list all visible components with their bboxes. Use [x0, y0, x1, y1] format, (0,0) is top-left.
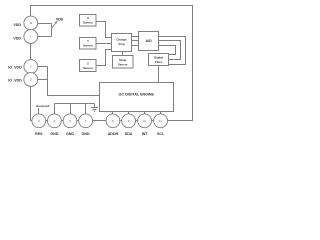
chip boundary: [31, 6, 193, 121]
wire Z sensor to charge amp: [96, 50, 112, 66]
wire temp sensor to charge amp: [122, 52, 124, 56]
svg-text:I2C DIGITAL ENGINE: I2C DIGITAL ENGINE: [118, 93, 154, 97]
pin RES 4: [32, 114, 46, 128]
pin SDA 9: [122, 114, 136, 128]
wire VDD join vertical: [51, 23, 53, 37]
wire Y sensor to charge amp: [96, 43, 112, 45]
pin IO_VDD 3: [24, 73, 38, 87]
pin IO_VDD 2: [24, 60, 38, 74]
pin SCL 12: [154, 114, 168, 128]
pin VDD 1: [24, 30, 38, 44]
feedback wire middle: [159, 41, 181, 60]
charge amp block: [112, 34, 132, 52]
pin GND 7: [79, 114, 93, 128]
wire IO_VDD pin 3: [37, 79, 47, 81]
feedback wire outer: [159, 37, 186, 65]
pin GND 6: [63, 114, 77, 128]
svg-text:Filter: Filter: [155, 60, 163, 64]
svg-text:SCL: SCL: [157, 132, 165, 136]
svg-text:Sensor: Sensor: [118, 62, 129, 66]
wire RES to Reserved: [38, 108, 40, 114]
ground: [91, 108, 98, 112]
svg-text:VDD: VDD: [13, 37, 21, 41]
VDD power arrow: [52, 23, 57, 29]
svg-text:Sensor: Sensor: [83, 21, 94, 25]
svg-text:ADDR: ADDR: [108, 132, 119, 136]
svg-text:Charge: Charge: [116, 37, 126, 41]
svg-text:GND: GND: [50, 132, 58, 136]
svg-text:SDA: SDA: [125, 132, 133, 136]
svg-text:Amp: Amp: [118, 42, 125, 46]
wire VDD pin 10 to join: [37, 23, 51, 25]
svg-text:IO_VDD: IO_VDD: [8, 79, 22, 83]
svg-text:RES: RES: [35, 132, 43, 136]
wire IO_VDD bus to I2C engine: [48, 67, 100, 96]
digital filter block: [149, 54, 169, 66]
wires charge amp to A/D: [132, 37, 139, 46]
pin INT 11: [138, 114, 152, 128]
svg-text:GND: GND: [82, 132, 90, 136]
svg-text:Reserved: Reserved: [36, 104, 49, 108]
wires I2C engine to bottom pins: [113, 112, 161, 115]
I2C digital engine block: [100, 83, 174, 112]
X sensor block: [80, 15, 97, 27]
Z sensor block: [80, 60, 97, 72]
pin GND 5: [48, 114, 62, 128]
svg-text:Sensor: Sensor: [83, 66, 94, 70]
svg-text:INT: INT: [142, 132, 149, 136]
svg-text:VDD: VDD: [56, 17, 64, 21]
A/D block: [139, 32, 159, 51]
wire VDD pin 1 to join: [37, 36, 51, 38]
svg-text:VDD: VDD: [13, 23, 21, 27]
wire digital filter to I2C engine: [158, 66, 160, 83]
wire IO_VDD pin 2: [37, 66, 47, 68]
temp sensor block: [113, 56, 134, 69]
svg-text:A/D: A/D: [145, 39, 152, 43]
feedback wire inner: [159, 46, 176, 55]
wire GND bus to ground: [55, 104, 95, 115]
svg-text:Temp: Temp: [119, 58, 127, 62]
pin VDD 10: [24, 16, 38, 30]
svg-text:IO_VDD: IO_VDD: [8, 66, 22, 70]
svg-text:Sensor: Sensor: [83, 44, 94, 48]
wire X sensor to charge amp: [96, 22, 112, 38]
pin ADDR 8: [106, 114, 120, 128]
Y sensor block: [80, 38, 97, 50]
svg-text:GND: GND: [66, 132, 74, 136]
